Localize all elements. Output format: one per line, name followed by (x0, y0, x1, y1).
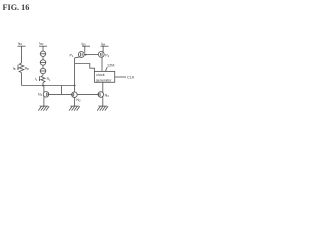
gate bus P1-P2 (84, 54, 99, 56)
transistor N2 (72, 92, 78, 98)
diode transistor D2 (40, 60, 45, 65)
svg-text:I1: I1 (35, 77, 38, 82)
N2 source wire (74, 97, 76, 106)
P1 drain wire down (74, 58, 76, 86)
wire (42, 65, 44, 68)
svg-text:IB4: IB4 (101, 42, 106, 47)
N2 drain stub (74, 86, 76, 93)
svg-text:P2: P2 (105, 53, 109, 58)
resistor RB (19, 63, 24, 73)
diode transistor D3 (40, 68, 45, 73)
svg-text:IB3: IB3 (82, 42, 87, 47)
leader line (105, 67, 107, 71)
N3 drain wire from box (102, 82, 104, 93)
junction dot (74, 85, 76, 87)
transistor P1 (78, 52, 84, 58)
svg-text:IB: IB (13, 66, 16, 71)
transistor N1 (43, 92, 49, 98)
wire branch1 bottom (21, 73, 23, 86)
junction dot node A (42, 85, 44, 87)
wire (42, 74, 44, 76)
ground under N1 (40, 105, 49, 107)
svg-text:clock: clock (96, 73, 105, 77)
N1 source wire (43, 96, 45, 106)
diode transistor D1 (40, 51, 45, 56)
P2 source wire (102, 46, 104, 53)
junction dot (85, 54, 87, 56)
wire branch2 top (42, 46, 44, 51)
svg-text:generator: generator (96, 78, 113, 82)
svg-text:RB: RB (25, 66, 29, 71)
supply tick branch 3 (82, 45, 90, 47)
supply tick branch 4 (101, 45, 109, 47)
N3 source wire (102, 96, 104, 106)
transistor P2 (98, 52, 104, 58)
bias tap wire to box (75, 64, 95, 72)
svg-text:P1: P1 (70, 54, 74, 59)
clock generator box (94, 71, 114, 82)
svg-text:CLK: CLK (127, 76, 135, 80)
transistor N3 (98, 92, 104, 98)
svg-text:N1: N1 (38, 93, 43, 98)
svg-text:12M: 12M (107, 64, 114, 68)
supply tick branch 2 (39, 45, 47, 47)
wire (42, 57, 44, 60)
bus1 to bus2 drop (61, 86, 63, 95)
node bus1 (22, 85, 75, 87)
P2 drain wire to box (101, 57, 103, 71)
resistor R1 (41, 76, 45, 83)
svg-text:IB1: IB1 (18, 42, 23, 47)
svg-text:FIG. 16: FIG. 16 (3, 3, 30, 12)
svg-text:N2: N2 (76, 98, 81, 103)
supply tick branch 1 (18, 45, 26, 47)
P1 source wire (84, 46, 86, 53)
current arrow at R1 (39, 76, 41, 81)
ground under N2 (70, 105, 79, 107)
current arrow at RB (17, 65, 19, 70)
wire branch2 bottom (42, 83, 44, 86)
CLK output wire (115, 76, 126, 78)
wire branch1 top (21, 46, 23, 63)
gate bus2 (49, 93, 72, 95)
svg-text:N3: N3 (105, 93, 110, 98)
N1 drain wire (43, 86, 45, 93)
svg-text:IB2: IB2 (39, 42, 44, 47)
ground under N3 (99, 105, 108, 107)
svg-text:R1: R1 (47, 77, 51, 82)
